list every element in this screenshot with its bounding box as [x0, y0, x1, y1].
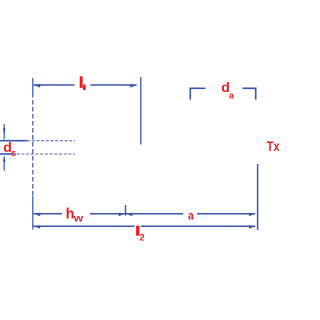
arrow right of l2	[249, 225, 256, 229]
svg-text:a: a	[188, 210, 195, 223]
arrow left of l1	[34, 84, 41, 88]
arrow left of l2	[34, 225, 41, 229]
svg-text:2: 2	[140, 232, 145, 242]
dimension line l1 (y=85)	[34, 84, 138, 88]
label d (left)	[3, 139, 16, 158]
label h_w	[66, 206, 84, 224]
arrow left of h_w	[34, 213, 41, 217]
dimension line h_w (y=213.6)	[34, 213, 126, 217]
dashed diameter line lower (y=154)	[0, 153, 75, 155]
extension line right (x=257.6)	[257, 164, 259, 230]
label d_a	[221, 79, 235, 100]
dimension line a (y=213.6)	[126, 213, 256, 217]
arrow left of a	[126, 213, 133, 217]
extension line left (x=33)	[32, 78, 34, 230]
arrow right of h_w	[119, 213, 126, 217]
svg-text:Tx: Tx	[267, 139, 280, 155]
arrow right of a	[249, 213, 256, 217]
dashed diameter line upper (y=140.7)	[0, 140, 75, 142]
svg-text:w: w	[73, 213, 84, 224]
dimension d_a bracket (top right, y=88.6)	[189, 88, 256, 100]
arrow right of l1	[130, 84, 137, 88]
dimension line l2 (y=226.6)	[34, 225, 256, 229]
dimension d arrows (left edge)	[3, 124, 6, 171]
extension line right of l1 (x=141)	[140, 77, 142, 145]
tick between h_w and a (x=125.5)	[125, 205, 127, 216]
label l1	[80, 76, 86, 90]
label l2	[136, 226, 144, 243]
svg-text:s: s	[11, 148, 16, 158]
